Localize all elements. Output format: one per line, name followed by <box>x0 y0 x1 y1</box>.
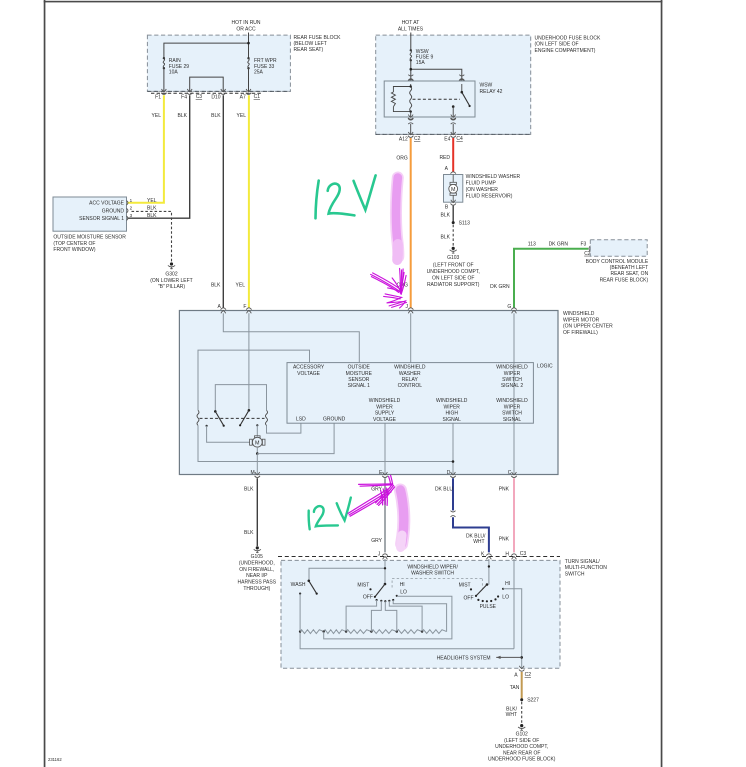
wires relay to fuse block bottom edge <box>411 124 454 134</box>
svg-text:(UNDERHOOD,: (UNDERHOOD, <box>239 560 275 566</box>
label WINDSHIELD WASHER FLUID PUMP <box>466 174 521 200</box>
svg-text:WSW: WSW <box>480 82 493 88</box>
svg-text:(ON WASHER: (ON WASHER <box>466 187 499 193</box>
svg-text:C3: C3 <box>520 551 527 557</box>
fuse FRT WPR FUSE 33 25A <box>247 57 277 76</box>
svg-text:BLK: BLK <box>244 487 254 493</box>
resistor ladder <box>300 630 447 634</box>
wire fuse to relay pins <box>411 60 462 81</box>
label UNDERHOOD FUSE BLOCK location <box>535 35 602 53</box>
svg-text:HI: HI <box>400 582 405 588</box>
pin K into switch <box>481 551 492 559</box>
wire BLK dashed to G103 <box>452 225 454 247</box>
label TURN SIGNAL MULTI-FUNCTION SWITCH <box>565 559 608 577</box>
junction node wash wire at resistor row <box>299 630 301 632</box>
rear fuse block box <box>147 35 290 91</box>
svg-text:BLK: BLK <box>441 235 451 241</box>
svg-text:231162: 231162 <box>48 757 62 762</box>
park switch contact to motor left <box>206 425 251 443</box>
svg-text:HOT AT: HOT AT <box>402 20 420 26</box>
pin A7 / connector C1 <box>240 89 261 100</box>
svg-text:LOGIC: LOGIC <box>537 363 553 369</box>
pin D <box>447 470 456 478</box>
wire ground node to logic GROUND <box>257 423 334 453</box>
svg-text:OR ACC: OR ACC <box>236 26 256 32</box>
svg-text:THROUGH): THROUGH) <box>243 586 270 592</box>
svg-text:S113: S113 <box>459 220 471 226</box>
fan wire contact4 to tap <box>385 601 397 631</box>
svg-text:OFF: OFF <box>464 595 474 601</box>
wire BLK pin M to G105 <box>256 478 258 546</box>
wire ORG from A12 down to wiper motor pin J <box>410 138 412 308</box>
svg-text:C1: C1 <box>254 94 261 100</box>
svg-text:WINDSHIELD: WINDSHIELD <box>496 398 528 404</box>
svg-text:TURN SIGNAL/: TURN SIGNAL/ <box>565 559 601 565</box>
wire YEL from F1 to sensor pin 1 <box>127 95 164 203</box>
wire high signal to pin D <box>452 423 454 474</box>
svg-text:BLK: BLK <box>211 282 221 288</box>
svg-text:REAR SEAT, ON: REAR SEAT, ON <box>610 271 648 277</box>
coil squiggle on left rail <box>197 410 199 425</box>
park switch dashed link <box>200 417 265 419</box>
fan wire contact2 to tap <box>346 600 377 632</box>
pin E4 / connector C4 <box>444 132 463 142</box>
svg-text:WINDSHIELD: WINDSHIELD <box>369 398 401 404</box>
wire pin J to washer relay control <box>410 313 412 362</box>
svg-text:BLK: BLK <box>147 213 157 219</box>
label WINDSHIELD WIPER MOTOR <box>563 311 613 336</box>
magenta scribble arrow upper <box>371 268 407 308</box>
junction node below fuse <box>410 68 413 71</box>
park switch blade 2 <box>239 409 250 426</box>
svg-text:WINDSHIELD: WINDSHIELD <box>394 365 426 371</box>
wire hot feed into rear fuse block <box>164 33 249 59</box>
fan wire contact3 to tap <box>371 601 381 632</box>
svg-text:FLUID RESERVOIR): FLUID RESERVOIR) <box>466 193 513 199</box>
svg-text:WASH: WASH <box>291 582 306 588</box>
svg-text:LO: LO <box>502 594 509 600</box>
sensor pin arcs <box>127 201 129 221</box>
svg-text:10A: 10A <box>169 70 179 76</box>
fan wire contact5 to tap <box>389 601 422 632</box>
wire HI contact to pin A rail <box>503 589 522 668</box>
wire bracket over park switch <box>215 385 266 411</box>
pin M <box>251 470 260 478</box>
svg-text:ACCESSORY: ACCESSORY <box>293 365 325 371</box>
svg-text:HIGH: HIGH <box>445 411 458 417</box>
svg-text:BLK: BLK <box>244 530 254 536</box>
fuse WSW FUSE 9 15A <box>410 49 434 66</box>
svg-text:SIGNAL 1: SIGNAL 1 <box>348 383 371 389</box>
label HOT AT ALL TIMES <box>398 20 424 32</box>
body control module box <box>590 240 647 257</box>
svg-text:VOLTAGE: VOLTAGE <box>373 417 397 423</box>
svg-text:OF FIREWALL): OF FIREWALL) <box>563 330 598 336</box>
ground G302 <box>150 262 193 290</box>
outside moisture sensor box <box>53 197 127 231</box>
svg-text:SIGNAL 2: SIGNAL 2 <box>501 383 524 389</box>
wire accessory voltage to left rail <box>198 350 310 410</box>
green marker 12V upper <box>316 175 376 218</box>
wire pin G through to pin C <box>513 313 515 474</box>
wire BLK/WHT dashed to G102 <box>521 702 523 724</box>
svg-text:M: M <box>251 470 255 476</box>
page border right <box>661 0 663 767</box>
svg-text:BLK: BLK <box>147 206 157 212</box>
wire branch to WASH switch <box>309 568 385 580</box>
relay coil circuit <box>391 84 411 112</box>
wire pin F to park switch pivot <box>248 313 250 410</box>
svg-text:REAR FUSE BLOCK): REAR FUSE BLOCK) <box>600 277 649 283</box>
turn signal switch box <box>281 560 560 668</box>
svg-text:UNDERHOOD FUSE BLOCK): UNDERHOOD FUSE BLOCK) <box>488 757 556 763</box>
svg-text:ON LEFT SIDE OF: ON LEFT SIDE OF <box>432 275 474 281</box>
relay pin symbols bottom <box>408 115 413 120</box>
svg-text:C2: C2 <box>525 672 532 678</box>
pin E <box>379 470 388 478</box>
sensor pin numbers <box>130 198 133 218</box>
wire K feed inside switch <box>488 559 490 585</box>
right wiper switch cluster <box>459 581 510 610</box>
svg-text:H: H <box>505 551 509 557</box>
svg-text:BLK: BLK <box>178 113 188 119</box>
svg-text:WINDSHIELD: WINDSHIELD <box>563 311 595 317</box>
svg-text:YEL: YEL <box>237 113 247 119</box>
wire pin A to sensor signal input <box>223 313 359 362</box>
wire bridge F4 to D10 inside fuse block <box>190 77 224 91</box>
svg-text:G302: G302 <box>165 272 177 278</box>
pin F <box>243 304 251 314</box>
svg-text:OFF: OFF <box>363 595 373 601</box>
svg-text:(ON LOWER LEFT: (ON LOWER LEFT <box>150 278 193 284</box>
underhood fuse block connector dashed line <box>376 133 531 135</box>
svg-text:C3: C3 <box>196 94 203 100</box>
svg-text:M: M <box>451 187 456 193</box>
svg-text:M: M <box>255 440 260 446</box>
rear fuse block connector dashed line <box>147 90 290 92</box>
svg-text:YEL: YEL <box>236 282 246 288</box>
wire labels 113 DK GRN F3 <box>528 241 587 247</box>
svg-text:(TOP CENTER OF: (TOP CENTER OF <box>53 241 95 247</box>
headlights system branch <box>437 655 523 661</box>
svg-text:OUTSIDE MOISTURE SENSOR: OUTSIDE MOISTURE SENSOR <box>53 235 126 241</box>
svg-text:HARNESS PASS: HARNESS PASS <box>238 580 277 586</box>
svg-text:MOISTURE: MOISTURE <box>346 371 373 377</box>
svg-text:ORG: ORG <box>396 156 408 162</box>
svg-text:C: C <box>508 470 512 476</box>
wire fuse FRT WPR to pin A7 <box>248 68 250 91</box>
svg-text:SWITCH: SWITCH <box>565 571 585 577</box>
svg-text:F3: F3 <box>580 241 586 247</box>
underhood fuse block box <box>376 35 531 134</box>
svg-text:MIST: MIST <box>357 582 369 588</box>
left wiper switch cluster <box>357 582 407 603</box>
svg-text:(BENEATH LEFT: (BENEATH LEFT <box>610 265 649 271</box>
svg-text:GRY: GRY <box>371 538 382 544</box>
wire DK BLU pin D to connector <box>452 478 454 510</box>
svg-text:ACC VOLTAGE: ACC VOLTAGE <box>89 201 124 207</box>
ladder tap nodes <box>323 630 424 632</box>
svg-text:GROUND: GROUND <box>102 208 125 214</box>
svg-text:25A: 25A <box>254 70 264 76</box>
svg-text:(LEFT SIDE OF: (LEFT SIDE OF <box>504 738 539 744</box>
wire RED from E4 to washer pump <box>452 138 454 172</box>
wire label BLK/ WHT <box>506 707 518 719</box>
pin F1 <box>155 89 166 100</box>
svg-text:ALL TIMES: ALL TIMES <box>398 27 424 33</box>
svg-text:WIPER: WIPER <box>444 404 461 410</box>
wire GRY pin E to switch pin J <box>384 478 386 552</box>
ground node under motor <box>256 452 259 455</box>
pin A12 / connector C2 <box>399 132 421 142</box>
ground G102 <box>488 724 556 763</box>
inline connector on DK BLU wire <box>451 511 456 517</box>
svg-text:G105: G105 <box>251 554 263 560</box>
label HOT IN RUN OR ACC <box>231 20 260 32</box>
wire motor node to pin M <box>256 454 258 475</box>
svg-text:C2: C2 <box>414 136 421 142</box>
pink highlighter blob lower <box>400 490 403 548</box>
ground G105 <box>238 546 277 592</box>
page border top <box>44 1 663 3</box>
WSW relay 42 box <box>384 81 502 117</box>
svg-text:RADIATOR SUPPORT): RADIATOR SUPPORT) <box>427 282 480 288</box>
svg-text:G: G <box>507 304 511 310</box>
bottom rail wash to H <box>300 594 514 649</box>
mechanical dashed link between clusters <box>392 579 482 589</box>
svg-text:D: D <box>447 470 451 476</box>
park switch blade 1 <box>214 410 225 427</box>
svg-text:E4: E4 <box>444 136 450 142</box>
logic box fill <box>287 363 533 424</box>
BCM connector entry <box>584 246 591 257</box>
wire DK BLU/WHT to switch pin K <box>453 517 489 552</box>
wire label DK BLU/ WHT <box>466 534 486 546</box>
svg-text:UNDERHOOD FUSE BLOCK: UNDERHOOD FUSE BLOCK <box>535 35 602 41</box>
pin D10 <box>211 89 225 100</box>
pin J into switch <box>378 551 388 559</box>
svg-text:(BELOW LEFT: (BELOW LEFT <box>294 41 327 47</box>
svg-text:"B" PILLAR): "B" PILLAR) <box>158 284 186 290</box>
svg-text:SENSOR: SENSOR <box>348 377 370 383</box>
svg-text:WINDSHIELD: WINDSHIELD <box>436 398 468 404</box>
svg-text:DK GRN: DK GRN <box>490 284 510 290</box>
svg-text:A12: A12 <box>399 136 408 142</box>
svg-text:HOT IN RUN: HOT IN RUN <box>231 20 260 26</box>
svg-text:F4: F4 <box>181 94 187 100</box>
magenta scribble arrow lower <box>348 475 395 516</box>
relay pin symbols top <box>408 79 413 84</box>
svg-text:FLUID PUMP: FLUID PUMP <box>466 180 497 186</box>
svg-text:F: F <box>243 304 246 310</box>
svg-text:(ON LEFT SIDE OF: (ON LEFT SIDE OF <box>535 42 579 48</box>
junction node <box>247 42 250 45</box>
wire J feed inside switch <box>384 559 386 584</box>
svg-text:SIGNAL: SIGNAL <box>503 417 522 423</box>
junction node on K feed <box>488 565 490 567</box>
svg-text:RELAY 42: RELAY 42 <box>480 89 503 95</box>
svg-text:BLK: BLK <box>441 213 451 219</box>
wire LSD to park switch bracket <box>267 423 301 433</box>
svg-text:WHT: WHT <box>506 712 517 718</box>
label BODY CONTROL MODULE <box>586 259 649 284</box>
relay output wires to bottom pins <box>411 107 454 117</box>
svg-text:OUTSIDE: OUTSIDE <box>348 365 371 371</box>
page border left <box>44 0 46 767</box>
junction node on high signal wire <box>452 460 455 463</box>
pin A / connector C2 out of switch <box>514 666 531 679</box>
label WINDSHIELD WIPER/WASHER SWITCH <box>407 564 458 576</box>
svg-text:(LEFT FRONT OF: (LEFT FRONT OF <box>433 262 474 268</box>
svg-text:MULTI-FUNCTION: MULTI-FUNCTION <box>565 565 608 571</box>
svg-text:REAR FUSE BLOCK: REAR FUSE BLOCK <box>294 35 342 41</box>
svg-text:WINDSHIELD WASHER: WINDSHIELD WASHER <box>466 174 521 180</box>
fuse RAIN FUSE 29 10A <box>163 57 190 76</box>
wire PNK pin C to switch pin H <box>513 478 515 552</box>
svg-text:PNK: PNK <box>499 537 510 543</box>
svg-text:F1: F1 <box>155 94 161 100</box>
wire DK GRN circuit 113 to BCM <box>514 249 588 308</box>
svg-text:HEADLIGHTS SYSTEM: HEADLIGHTS SYSTEM <box>437 655 491 661</box>
svg-text:REAR SEAT): REAR SEAT) <box>294 47 324 53</box>
pin F4 / connector C3 <box>181 89 202 100</box>
svg-text:BODY CONTROL MODULE: BODY CONTROL MODULE <box>586 259 649 265</box>
coil squiggle on LSD branch <box>266 410 268 425</box>
svg-text:NEAR REAR OF: NEAR REAR OF <box>503 750 541 756</box>
svg-text:RELAY: RELAY <box>402 377 419 383</box>
svg-text:ENGINE COMPARTMENT): ENGINE COMPARTMENT) <box>535 48 596 54</box>
pump pin B <box>445 200 456 211</box>
svg-text:SWITCH: SWITCH <box>502 377 522 383</box>
wire BLK pump to S113 <box>452 206 454 222</box>
pin H / connector C3 <box>505 551 526 559</box>
junction node on J feed <box>384 567 386 569</box>
green marker 12V lower <box>309 498 351 530</box>
svg-text:113: 113 <box>528 241 536 247</box>
wire left rail to high-signal junction <box>198 425 453 461</box>
svg-text:NEAR I/P: NEAR I/P <box>246 573 268 579</box>
svg-text:BLK: BLK <box>211 113 221 119</box>
wire fuse RAIN to pin F1 <box>163 68 165 91</box>
splice S227 <box>520 698 539 704</box>
fan wire LO contact loop to tap <box>324 596 452 639</box>
svg-text:VOLTAGE: VOLTAGE <box>297 371 321 377</box>
svg-text:GROUND: GROUND <box>323 417 346 423</box>
svg-text:SWITCH: SWITCH <box>502 411 522 417</box>
svg-text:PULSE: PULSE <box>480 604 497 610</box>
connector arcs on relay feeds <box>408 75 413 81</box>
svg-text:UNDERHOOD COMPT,: UNDERHOOD COMPT, <box>427 269 480 275</box>
svg-text:DK BLU: DK BLU <box>435 487 453 493</box>
svg-text:ON FIREWALL,: ON FIREWALL, <box>239 567 274 573</box>
pin C <box>508 470 517 478</box>
svg-text:HI: HI <box>505 581 510 587</box>
svg-text:S227: S227 <box>527 698 539 704</box>
wiper motor box <box>179 311 558 475</box>
svg-text:RED: RED <box>439 155 450 161</box>
wire BLK from D10 down to wiper motor pin A <box>222 95 224 307</box>
logic labels top row <box>293 365 528 390</box>
logic box border <box>287 363 533 424</box>
svg-text:MIST: MIST <box>459 583 471 589</box>
pin J <box>406 304 414 314</box>
wire motor to ground node <box>256 447 258 454</box>
pink highlighter blob upper <box>396 178 398 261</box>
ground G103 <box>427 247 480 288</box>
svg-text:SUPPLY: SUPPLY <box>375 411 395 417</box>
svg-text:WIPER MOTOR: WIPER MOTOR <box>563 317 600 323</box>
svg-text:WASHER: WASHER <box>399 371 421 377</box>
pin G <box>507 304 516 314</box>
wire hot feed to WSW fuse <box>410 33 412 51</box>
label OUTSIDE MOISTURE SENSOR <box>53 235 126 253</box>
park switch contact to motor top <box>256 424 258 436</box>
WASH switch <box>291 580 318 595</box>
svg-text:SENSOR SIGNAL 1: SENSOR SIGNAL 1 <box>79 216 124 222</box>
svg-text:PNK: PNK <box>499 487 510 493</box>
svg-text:WINDSHIELD: WINDSHIELD <box>496 365 528 371</box>
logic labels bottom row <box>296 398 528 423</box>
svg-text:G103: G103 <box>447 255 459 261</box>
wiper motor M <box>250 436 265 447</box>
svg-text:(ON UPPER CENTER: (ON UPPER CENTER <box>563 324 613 330</box>
svg-text:WASHER SWITCH: WASHER SWITCH <box>411 570 454 576</box>
svg-text:WHT: WHT <box>473 539 484 545</box>
wire BLK dashed sensor ground <box>132 211 172 261</box>
svg-text:G102: G102 <box>516 732 528 738</box>
switch box top connector dashed line <box>278 556 560 558</box>
svg-text:WIPER: WIPER <box>504 404 521 410</box>
svg-text:WIPER: WIPER <box>376 404 393 410</box>
svg-text:DK GRN: DK GRN <box>549 241 569 247</box>
svg-text:C4: C4 <box>456 136 463 142</box>
relay coil nodes <box>410 85 412 87</box>
svg-text:YEL: YEL <box>147 198 157 204</box>
svg-text:CONTROL: CONTROL <box>398 383 423 389</box>
svg-text:SIGNAL: SIGNAL <box>443 417 462 423</box>
svg-text:LO: LO <box>400 590 407 596</box>
svg-text:LSD: LSD <box>296 417 306 423</box>
wire BLK from F4 to sensor pin 3 <box>127 95 190 218</box>
relay mechanical dashed link <box>413 98 461 100</box>
svg-text:WIPER: WIPER <box>504 371 521 377</box>
wire TAN pin A to S227 <box>521 672 523 699</box>
wire H feed down to ladder rail <box>513 559 515 649</box>
pin A <box>217 304 226 314</box>
svg-text:YEL: YEL <box>152 113 162 119</box>
wire supply voltage to pin E <box>384 423 386 474</box>
svg-text:UNDERHOOD COMPT,: UNDERHOOD COMPT, <box>495 744 548 750</box>
windshield washer fluid pump box <box>444 175 463 203</box>
svg-text:15A: 15A <box>416 60 426 66</box>
label REAR FUSE BLOCK location <box>294 35 342 53</box>
wire YEL from A7 down to wiper motor pin F <box>248 95 250 307</box>
relay switch <box>452 84 471 108</box>
splice S113 <box>452 220 470 226</box>
svg-text:D10: D10 <box>211 94 220 100</box>
pump pin A <box>445 166 456 177</box>
fan wire contact6 to ladder end <box>393 600 446 632</box>
svg-text:A7: A7 <box>240 94 246 100</box>
svg-text:TAN: TAN <box>510 685 520 691</box>
svg-text:FRONT WINDOW): FRONT WINDOW) <box>53 247 95 253</box>
